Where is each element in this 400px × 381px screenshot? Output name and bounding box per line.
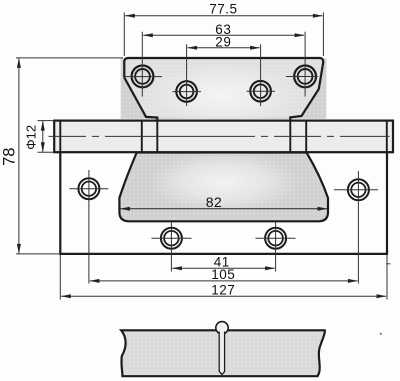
top leaf inner hole left (176, 81, 197, 102)
bottom middle hole left (161, 228, 182, 249)
svg-text:29: 29 (215, 35, 231, 50)
dim 41 extension lines (171, 253, 275, 272)
dim 127 line (61, 295, 386, 297)
svg-text:Φ12: Φ12 (24, 125, 39, 150)
svg-text:82: 82 (206, 194, 223, 210)
pin shaft (219, 332, 224, 375)
dim 63 line (143, 34, 304, 36)
svg-text:105: 105 (211, 267, 235, 282)
dim 77.5 extension lines (124, 13, 323, 57)
dim phi12 extension ticks (38, 121, 55, 153)
svg-text:78: 78 (1, 148, 19, 166)
dim 105 line (90, 280, 358, 282)
dim 127 extension lines (60, 254, 387, 299)
knuckle line left (141, 121, 143, 153)
stub artifact (386, 263, 391, 265)
dim 29 line (188, 47, 260, 49)
dim phi12 line (42, 121, 44, 152)
barrel right cap line (386, 121, 388, 153)
section bar (121, 330, 325, 376)
bottom plate hole left (78, 178, 99, 199)
bottom plate outline (60, 152, 387, 254)
dim 63 extension lines (142, 32, 305, 60)
dim 78 line (18, 58, 20, 253)
top leaf inner lighter fill (124, 58, 323, 118)
dish center highlight (148, 151, 300, 213)
top leaf center highlight (143, 62, 303, 128)
top leaf gray patch (121, 58, 327, 119)
dim 105 extension lines (89, 207, 359, 284)
dim 41 line (172, 267, 274, 269)
knuckle line right2 (289, 121, 291, 153)
bottom middle hole right (265, 228, 286, 249)
dim 77.5 line (125, 15, 322, 17)
bottom plate hole right (348, 179, 369, 200)
barrel (54, 121, 393, 153)
knuckle line left2 (156, 121, 158, 153)
svg-text:77.5: 77.5 (209, 1, 237, 16)
barrel left cap line (59, 121, 61, 153)
dim 29 extension lines (187, 44, 261, 76)
bottom leaf dish gray (119, 153, 328, 222)
dim 78 extension lines (16, 58, 123, 254)
svg-text:127: 127 (211, 283, 235, 298)
speck artifact (380, 333, 382, 335)
dim 82 line (120, 208, 327, 210)
knuckle line right (305, 121, 307, 153)
top leaf outer hole right (294, 66, 316, 88)
top leaf outer hole left (132, 66, 154, 88)
pin head (216, 322, 228, 334)
barrel center line (49, 135, 390, 137)
top leaf inner hole right (250, 81, 271, 102)
top leaf outline (124, 58, 323, 152)
